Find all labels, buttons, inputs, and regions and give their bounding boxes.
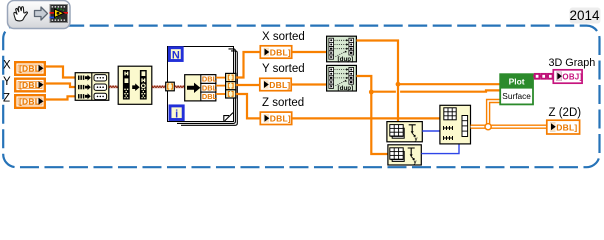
- svg-text:[DBL: [DBL: [19, 80, 40, 90]
- branch up to plot surface z input: [488, 101, 500, 125]
- svg-text:DBL]: DBL]: [270, 47, 291, 57]
- loop output tunnels: [226, 73, 236, 98]
- loop input tunnel: [166, 82, 175, 91]
- zigzag matrix wire: sort to loop tunnel: [152, 85, 166, 88]
- svg-text:N: N: [172, 50, 180, 62]
- svg-text:X sorted: X sorted: [262, 31, 305, 43]
- svg-text:Z: Z: [3, 93, 10, 105]
- open junction circle: [485, 124, 491, 130]
- sort node: [118, 66, 152, 104]
- wire dup2 out: right, down, junction, to plot surface (gap at x=398) and node B: [356, 76, 388, 154]
- control terminal X [DBL]: [15, 62, 45, 75]
- junction dot dup1: [396, 82, 401, 87]
- svg-text:Z sorted: Z sorted: [262, 97, 304, 109]
- svg-text:Z (2D): Z (2D): [549, 107, 582, 119]
- zigzag matrix wire: build array to sort: [109, 85, 119, 88]
- svg-text:DBL]: DBL]: [269, 80, 290, 90]
- hand tool icon: [14, 7, 28, 21]
- svg-text:3D Graph: 3D Graph: [549, 57, 596, 69]
- wire X terminal to build array: [46, 67, 75, 78]
- svg-text:Y: Y: [3, 76, 11, 88]
- blue wire node A to reshape: [422, 130, 440, 132]
- wire tunnel2 to Y sorted: [236, 84, 259, 86]
- dog-ear fold bottom-right: [224, 113, 233, 121]
- wire Z terminal to build array: [46, 96, 75, 99]
- svg-text:DBL: DBL: [202, 75, 218, 84]
- wire tunnel3 to Z sorted: [236, 94, 260, 118]
- svg-text:DBL: DBL: [202, 83, 218, 92]
- svg-text:DBL]: DBL]: [270, 114, 291, 124]
- 3D graph OBJ indicator: [553, 70, 582, 83]
- blue wire node B to reshape bottom: [421, 144, 459, 154]
- build array node: [75, 73, 109, 101]
- indicator Y sorted: [260, 78, 291, 90]
- junction dot dup2: [369, 90, 374, 95]
- control terminal Y [DBL]: [15, 79, 45, 92]
- svg-text:Y sorted: Y sorted: [262, 63, 305, 75]
- control terminal Z [DBL]: [15, 95, 45, 108]
- for loop shadow frames: [177, 49, 235, 124]
- 2D array wire: reshape to Z(2D), double line: [471, 101, 547, 130]
- wire X sorted to dup1: [292, 51, 327, 53]
- 2014 year tag: [569, 8, 600, 24]
- wire Z sorted to reshape (long): [292, 117, 440, 119]
- array size node A: [387, 122, 422, 143]
- wire dup1 out: right, down, junction, to plot surface and node A: [356, 41, 398, 122]
- indicator Z sorted: [260, 112, 291, 124]
- svg-text:[dup]: [dup]: [338, 85, 354, 92]
- run arrow icon: [35, 7, 48, 20]
- svg-text:i: i: [175, 108, 178, 120]
- wire Y sorted to dup2: [291, 83, 326, 85]
- svg-text:[DBL: [DBL: [19, 97, 40, 107]
- diagram dashed border: [3, 26, 599, 168]
- toolbar: [8, 1, 71, 29]
- dup node 2: [327, 65, 357, 92]
- svg-text:DBL: DBL: [202, 92, 218, 101]
- svg-text:[DBL: [DBL: [19, 64, 40, 74]
- array size node B: [388, 145, 421, 166]
- wires index node to tunnels: [216, 77, 226, 79]
- for loop main frame: [168, 47, 234, 122]
- svg-text:2014: 2014: [569, 8, 600, 23]
- svg-text:Plot: Plot: [509, 77, 525, 87]
- N count box: [169, 48, 182, 62]
- VI icon: [50, 5, 69, 23]
- indicator X sorted: [260, 46, 291, 58]
- svg-text:X: X: [3, 60, 11, 72]
- svg-text:DBL]: DBL]: [556, 122, 577, 132]
- svg-text:OBJ]: OBJ]: [562, 73, 582, 82]
- Z (2D) indicator: [547, 120, 580, 134]
- dup node 1: [327, 36, 357, 63]
- i iteration box: [170, 106, 183, 120]
- wire Y terminal to build array: [46, 84, 75, 88]
- pink chain wire to 3D graph: [533, 74, 553, 79]
- index array node inside loop: [185, 75, 218, 101]
- zigzag tunnel to index node: [174, 85, 184, 88]
- svg-text:Surface: Surface: [502, 91, 531, 101]
- wire tunnel1 to X sorted: [236, 52, 260, 78]
- svg-text:[dup]: [dup]: [338, 56, 354, 63]
